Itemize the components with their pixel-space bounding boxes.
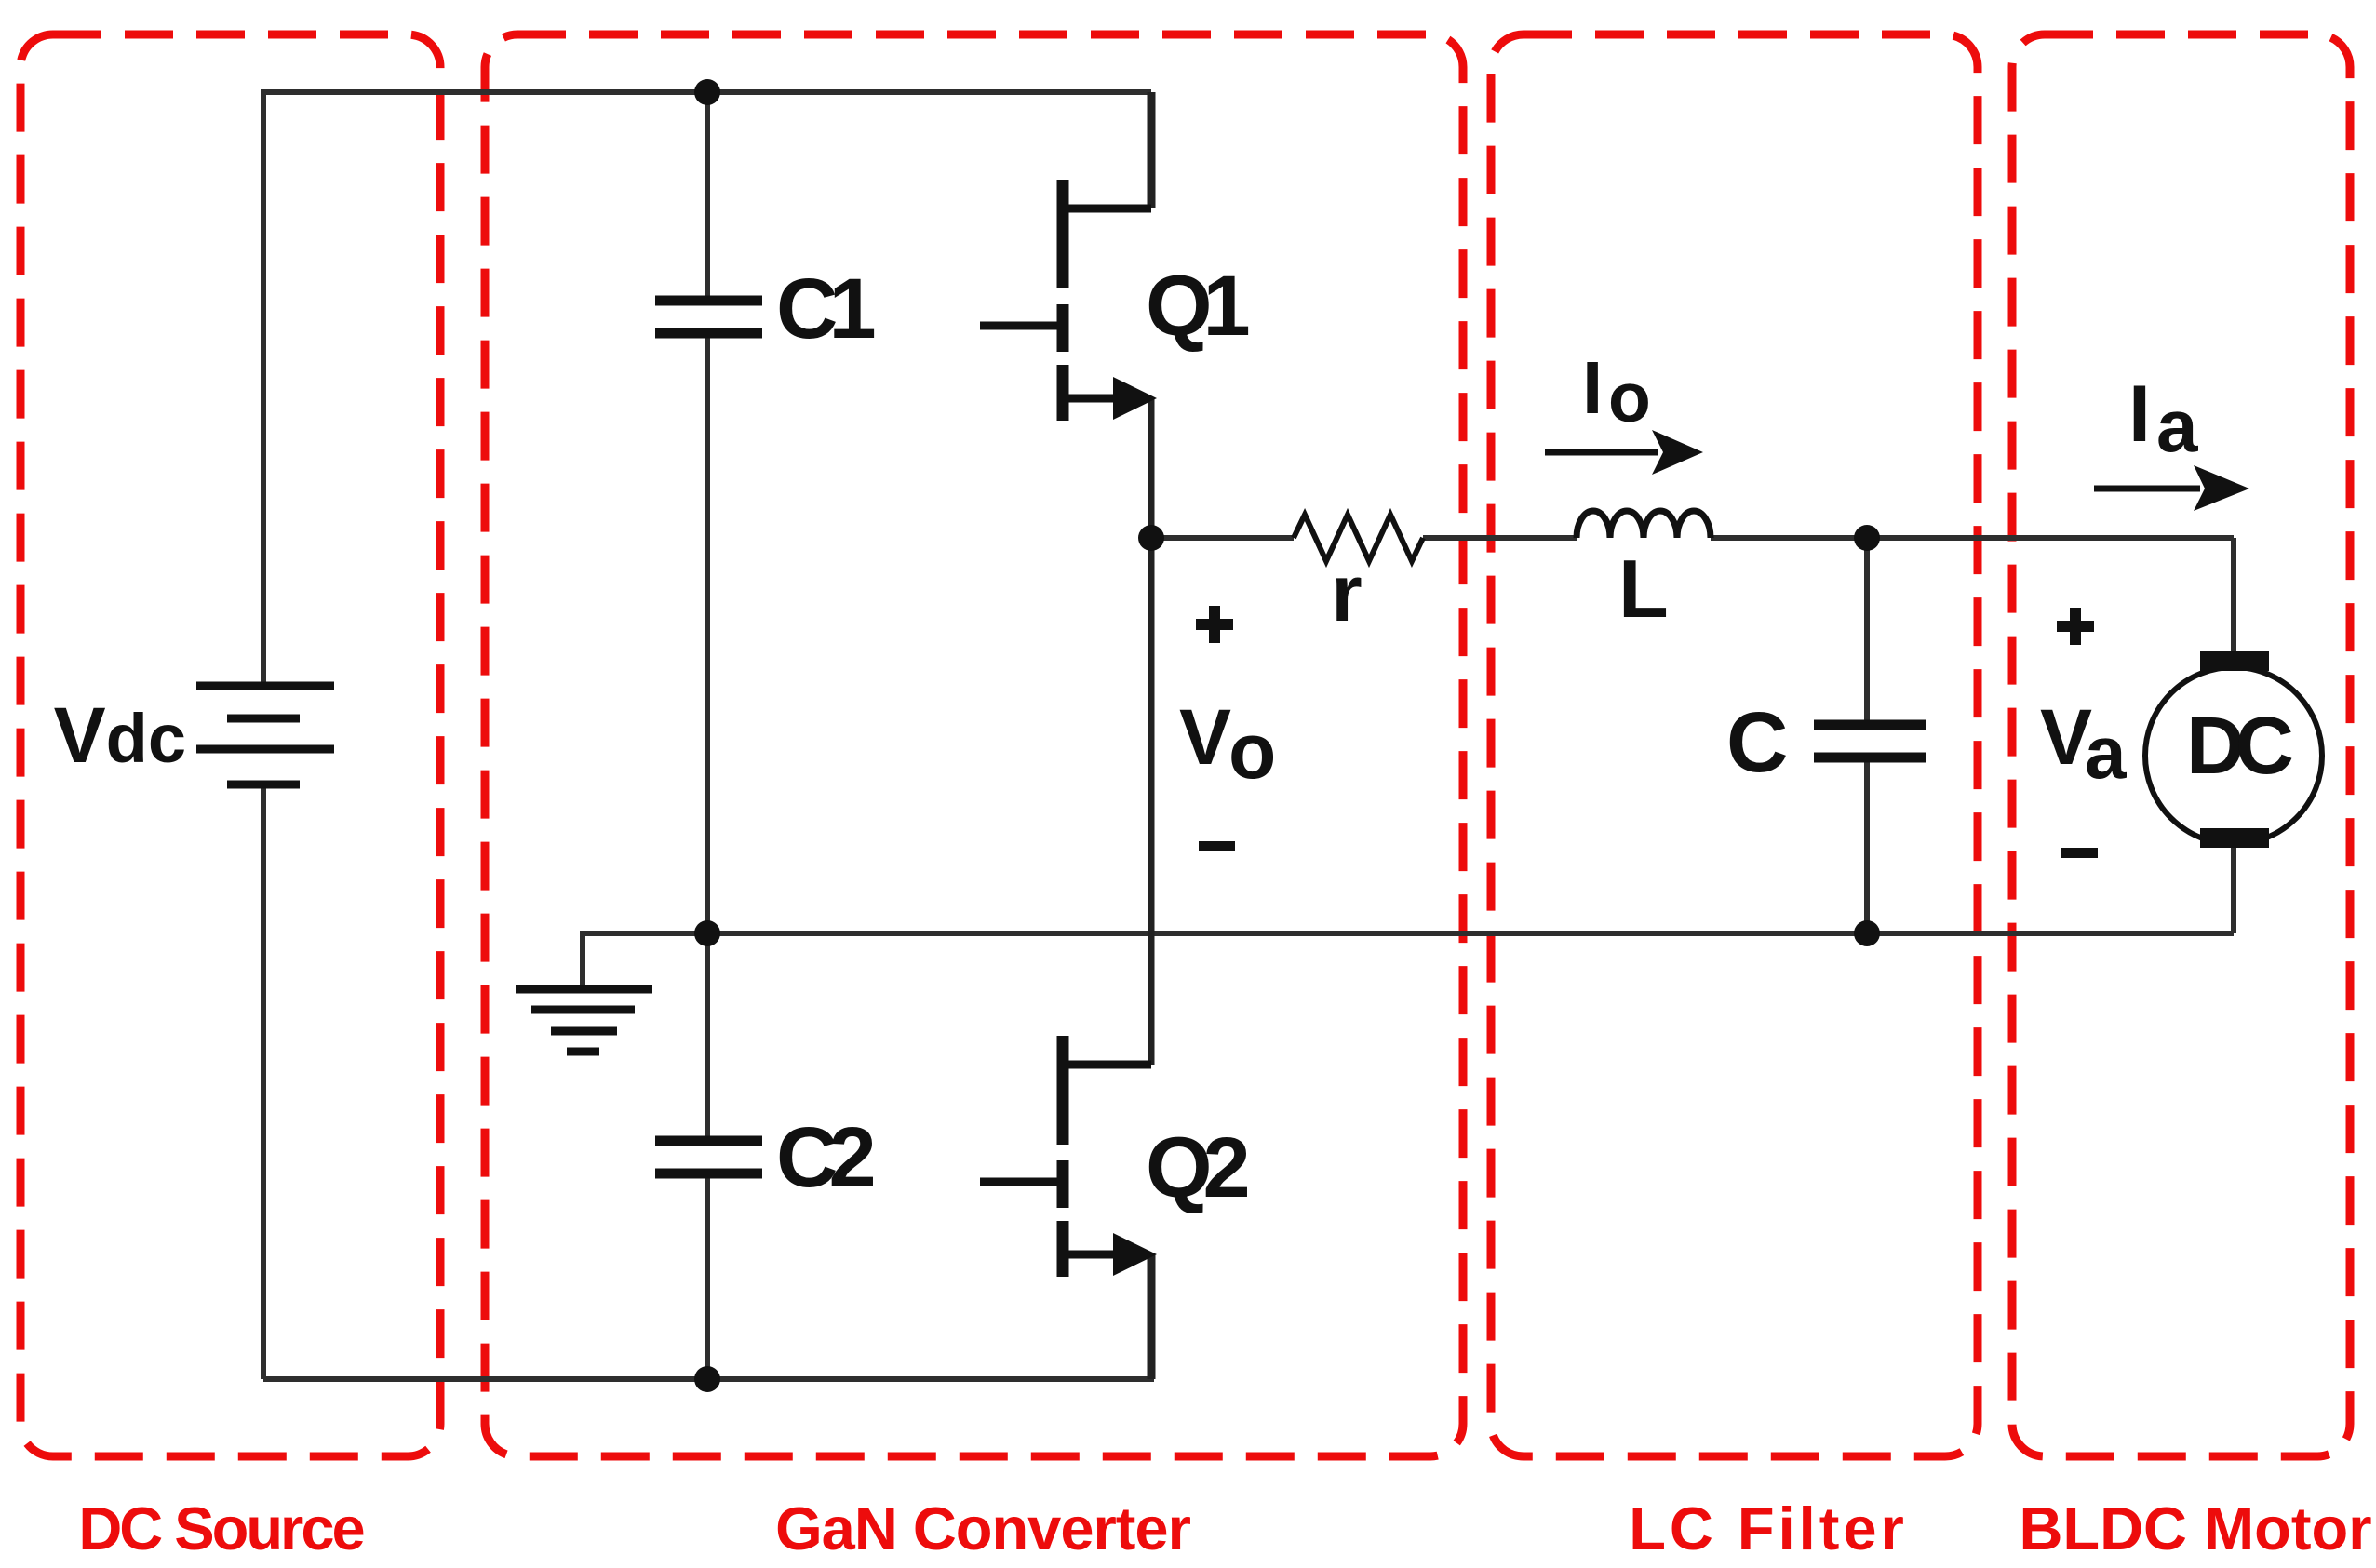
svg-text:o: o xyxy=(1608,358,1651,436)
svg-text:Vdc: Vdc xyxy=(54,691,186,779)
svg-text:I: I xyxy=(2128,369,2151,459)
svg-text:r: r xyxy=(1331,549,1362,638)
svg-text:a: a xyxy=(2156,384,2198,467)
svg-text:Q2: Q2 xyxy=(1146,1120,1248,1215)
svg-text:LC Filter: LC Filter xyxy=(1629,1494,1908,1562)
svg-text:DC: DC xyxy=(2186,701,2292,791)
svg-text:I: I xyxy=(1582,346,1603,429)
svg-text:GaN Converter: GaN Converter xyxy=(775,1494,1190,1562)
svg-text:Q1: Q1 xyxy=(1146,259,1249,354)
svg-text:V: V xyxy=(1179,693,1231,781)
svg-text:DC Source: DC Source xyxy=(78,1494,363,1562)
svg-text:C1: C1 xyxy=(776,261,874,356)
svg-text:C2: C2 xyxy=(776,1110,873,1205)
svg-text:a: a xyxy=(2085,711,2127,794)
svg-text:L: L xyxy=(1618,543,1669,635)
svg-text:o: o xyxy=(1228,707,1276,795)
svg-text:BLDC Motor: BLDC Motor xyxy=(2019,1494,2371,1562)
svg-text:C: C xyxy=(1726,695,1788,790)
